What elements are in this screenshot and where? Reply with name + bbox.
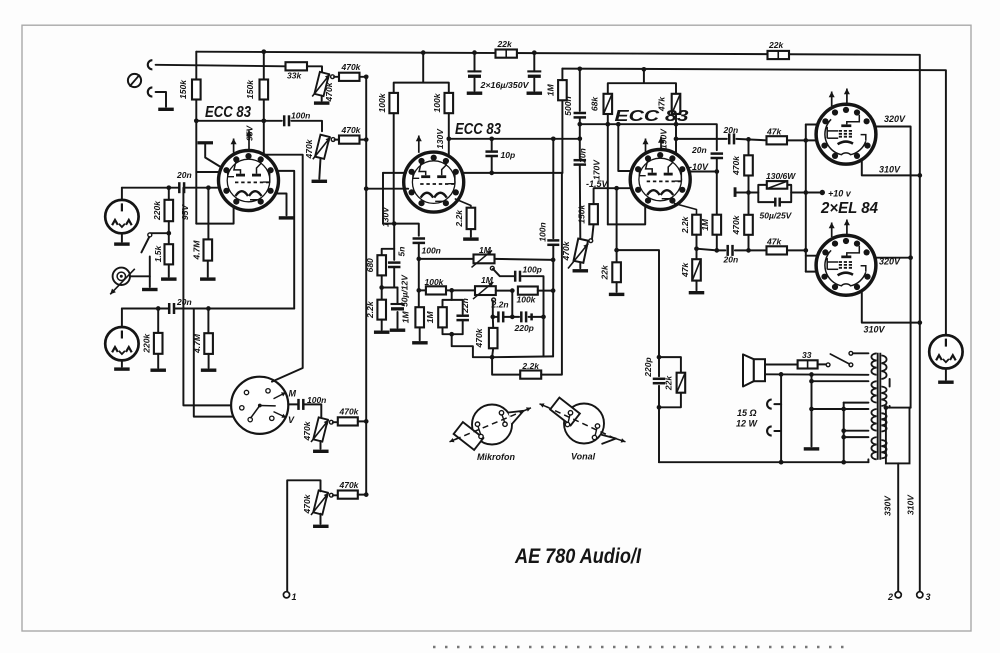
svg-text:Mikrofon: Mikrofon — [477, 452, 515, 462]
node 5n tap — [392, 221, 397, 226]
wire 2.2k R25 to 47k — [696, 235, 698, 260]
wire P7 wiper to 150k — [592, 224, 594, 239]
resistor 150k R2 — [260, 80, 269, 100]
node row A — [416, 257, 421, 262]
switch S2 lever — [830, 354, 849, 364]
svg-text:ECC 83: ECC 83 — [205, 104, 251, 121]
resistor 1M R16 — [558, 80, 567, 100]
wire speaker top to 33 — [765, 364, 798, 366]
terminal 3 — [917, 592, 923, 598]
wire bottom rail — [659, 461, 868, 463]
node bus bottom — [364, 492, 369, 497]
wire P5 wiper to 100p — [493, 269, 515, 276]
wire 470k R9 to bus — [358, 420, 366, 422]
svg-text:ECC 83: ECC 83 — [615, 108, 689, 125]
node divider top — [746, 137, 751, 142]
arrow M position — [274, 392, 287, 398]
wire 47k R31 to V5 grid — [787, 249, 806, 251]
wire hook to riser — [774, 403, 781, 405]
capacitor 100n C4 — [299, 399, 304, 410]
wire node to 470k R21 — [492, 317, 494, 328]
secondary winding R3 — [881, 413, 886, 431]
wire second rail to right DIN connector — [562, 69, 946, 336]
wire 100k R13 to V2 anode — [448, 113, 450, 155]
wire 100n C5 down to 1M — [418, 243, 420, 307]
capacitor 220p C12 — [653, 379, 666, 383]
capacitor 100n C1 — [284, 115, 289, 126]
svg-text:1: 1 — [292, 592, 297, 602]
wire 20n C2 to V1 grid — [185, 187, 220, 189]
node 10p bottom — [489, 171, 494, 176]
svg-text:2.2k: 2.2k — [680, 215, 690, 234]
svg-text:500n: 500n — [563, 96, 573, 115]
wire speaker bottom to winding W1 — [765, 373, 868, 376]
node anode wire end — [577, 136, 582, 141]
wire 95V cathode line — [195, 100, 197, 224]
primary winding W4 — [871, 437, 876, 459]
potentiometer 1M P5 — [474, 255, 495, 264]
svg-text:+10 v: +10 v — [828, 188, 852, 198]
wire W2 top — [812, 380, 869, 382]
svg-text:Vonal: Vonal — [571, 452, 596, 462]
wire P7 to ground — [579, 262, 581, 268]
wire V1 pin to ground — [276, 194, 286, 216]
svg-text:22k: 22k — [497, 39, 513, 49]
svg-text:2.2k: 2.2k — [454, 209, 464, 228]
svg-text:100k: 100k — [377, 92, 387, 112]
ground at cap A — [467, 92, 483, 95]
wire P4 wiper to 470k R10 — [333, 494, 338, 496]
svg-text:33k: 33k — [287, 70, 302, 80]
node bus top — [364, 74, 369, 79]
node caps riser — [510, 288, 515, 293]
terminal +10V — [820, 190, 825, 195]
capacitor 20n C2 — [179, 182, 184, 193]
node 22k top — [614, 248, 619, 253]
wire 500n down — [579, 118, 581, 158]
svg-text:310V: 310V — [864, 325, 886, 335]
wire anode line to 100n C7 — [552, 139, 554, 239]
node crossing W3 — [841, 407, 846, 412]
ground at 50u — [390, 329, 406, 332]
svg-text:470k: 470k — [474, 327, 484, 348]
ground at 4.7M R6 — [200, 277, 216, 280]
svg-text:320V: 320V — [884, 114, 906, 124]
node row B join — [551, 288, 556, 293]
svg-text:10p: 10p — [501, 150, 516, 160]
resistor 1M R27 — [713, 215, 722, 235]
potentiometer 470k P4 — [313, 490, 328, 514]
loudspeaker — [754, 359, 765, 381]
wire 20n C3 to V1 grid b — [174, 308, 294, 310]
ground at DIN3 — [938, 381, 954, 384]
DIN connector 1 — [105, 200, 138, 233]
node crossing — [803, 190, 808, 195]
svg-text:1M: 1M — [481, 275, 494, 285]
wire P6 to 100k R20 — [496, 290, 513, 292]
wire secondary link — [889, 379, 891, 408]
svg-text:22k: 22k — [664, 375, 674, 391]
wire cathode V3 to 20n C11 — [697, 249, 717, 251]
resistor 2.2k R25 — [692, 215, 701, 235]
capacitor 20n C8 — [574, 160, 587, 164]
wire pickup to riser — [130, 275, 150, 277]
wire node to 50u cap — [397, 288, 399, 304]
svg-text:150k: 150k — [245, 79, 255, 99]
wire DIN2 ground stub — [121, 360, 123, 366]
svg-text:100k: 100k — [517, 295, 537, 305]
wire grid to 4.7M R6 — [207, 188, 209, 240]
wire J1 to 33k — [156, 65, 286, 67]
capacitor 20n C10 — [729, 133, 734, 144]
node +10V line a — [746, 190, 751, 195]
wire 150k R2 to V1 anode pin — [263, 100, 265, 155]
resistor 2.2k R15 — [377, 300, 386, 320]
svg-text:470k: 470k — [561, 240, 571, 261]
heater arrow V4b — [846, 89, 848, 105]
resistor 4.7M R8 — [204, 333, 213, 354]
svg-text:22n: 22n — [460, 298, 470, 314]
triode ECC83 V2 — [404, 152, 464, 212]
wire node to switch contact — [150, 232, 169, 234]
svg-text:320V: 320V — [879, 257, 901, 267]
node cathode RC — [379, 285, 384, 290]
resistor 1M R19 — [438, 307, 447, 327]
resistor 470k R29 — [744, 155, 753, 175]
wire grid2 ground to V1 pin — [205, 144, 221, 167]
ground at P4 — [313, 525, 329, 528]
node 310V rail a — [917, 173, 922, 178]
svg-text:310V: 310V — [879, 165, 901, 175]
wire 100k R20 to 100n line — [538, 290, 553, 292]
wire channel2 to selector lower contact — [194, 309, 247, 417]
resistor 33k — [286, 62, 308, 70]
wire rail to cap A — [474, 53, 476, 72]
node filter cap B — [532, 50, 537, 55]
output transformer core — [877, 353, 879, 460]
wire 20n C9 to 1M R27 — [716, 159, 718, 215]
node switch tap — [166, 231, 171, 236]
capacitor 20n C3 — [169, 303, 174, 314]
heater arrow V2 — [418, 136, 420, 153]
wire cap A to ground — [474, 79, 476, 91]
svg-text:2×16µ/350V: 2×16µ/350V — [479, 80, 529, 90]
capacitor 20n C11 — [728, 245, 733, 256]
svg-text:220p: 220p — [643, 357, 653, 377]
node V4 grid — [803, 138, 808, 143]
phono symbol (circle with slash) — [128, 74, 141, 87]
svg-text:47k: 47k — [766, 236, 782, 246]
svg-text:33: 33 — [802, 350, 812, 360]
svg-text:20n: 20n — [723, 254, 739, 264]
svg-text:-10V: -10V — [689, 162, 709, 172]
svg-text:V: V — [288, 415, 295, 425]
wire V1 pin (155deg) — [196, 171, 220, 173]
wire W3 bottom — [844, 430, 869, 432]
resistor 100k R18 — [426, 286, 446, 294]
wire 2.2k R22 feedback riser — [541, 173, 562, 375]
svg-text:20n: 20n — [578, 148, 588, 164]
potentiometer 470k P1 — [314, 72, 329, 96]
svg-text:100k: 100k — [425, 277, 445, 287]
capacitor 22n — [456, 316, 469, 320]
wire J2 to ground — [156, 92, 166, 107]
ground bar at V1 grid2 — [198, 141, 214, 144]
wire V5 anode 320V — [875, 257, 911, 259]
wire 4.7M R6 to ground — [207, 261, 209, 277]
resistor 47k R28 — [767, 136, 788, 144]
wire to V5 pin upper — [806, 255, 817, 257]
wire to 470k R29 — [748, 139, 750, 155]
resistor 100k R13 — [445, 93, 454, 113]
secondary output box — [886, 408, 910, 464]
wire 100n C4 to pot P3 — [304, 404, 321, 418]
wire cap B to ground — [533, 79, 535, 91]
switch lever b — [260, 405, 275, 407]
svg-text:1M: 1M — [425, 310, 435, 323]
resistor 47k R26 — [692, 259, 701, 280]
wire 33k to pot P1 — [307, 66, 322, 72]
node bus low — [364, 419, 369, 424]
switch lever — [141, 237, 149, 252]
resistor 2.2k R17 — [467, 208, 476, 229]
svg-text:220k: 220k — [141, 333, 151, 354]
resistor 22k R33 — [677, 373, 686, 393]
ground at 4.7M R8 — [201, 369, 217, 372]
svg-text:47k: 47k — [766, 126, 782, 136]
wire to 22n — [452, 300, 463, 314]
resistor 1M R14 — [415, 307, 424, 327]
wire to V3 pin155 — [618, 124, 632, 171]
capacitor 100n C5 — [413, 239, 426, 243]
svg-text:100n: 100n — [422, 245, 441, 255]
primary winding W1 — [871, 353, 876, 375]
wire 1.5k to ground — [168, 264, 170, 276]
wire 470k R21 bottom — [492, 348, 493, 357]
wire V3 pin300 to 2.2k R25 — [675, 204, 697, 215]
node collector mid — [541, 315, 546, 320]
svg-text:470k: 470k — [324, 81, 334, 102]
wire 470k R3 to bus — [360, 76, 367, 78]
svg-text:680: 680 — [365, 258, 375, 272]
wire W2 bottom — [844, 402, 869, 404]
ground at DIN2 — [114, 367, 129, 370]
wire node to 50u — [382, 287, 398, 289]
wire to 2.2k R22 — [492, 357, 520, 374]
svg-text:100n: 100n — [291, 110, 310, 120]
wire to 20n C11 — [717, 249, 726, 251]
triode ECC83 V1 — [219, 151, 279, 211]
wire V2 pin300 to 2.2k R17 — [455, 199, 471, 208]
wire P3 to ground — [320, 441, 322, 449]
wire 100k R18 to pot P6 — [446, 289, 475, 291]
wire bus to V2 grid pin — [366, 188, 408, 190]
ground at J2 — [158, 108, 174, 111]
svg-text:1M: 1M — [479, 245, 492, 255]
wire row B to 100k R18 — [419, 289, 426, 291]
potentiometer 470k P2 — [315, 135, 330, 159]
wire rail to 150k R1 — [195, 52, 197, 80]
heater arrow V1b — [248, 131, 250, 152]
node rail to 100k pair — [421, 50, 426, 55]
svg-text:470k: 470k — [341, 62, 362, 72]
svg-text:100k: 100k — [432, 92, 442, 112]
wire rail to 150k R2 — [263, 52, 265, 80]
wire P1 wiper to 470k R3 — [334, 76, 339, 78]
pentode EL84 V4 — [816, 104, 876, 164]
svg-text:170V: 170V — [592, 159, 602, 180]
wire W4 top — [844, 436, 869, 438]
ground at 1.5k — [161, 277, 177, 280]
node cathode V3 — [694, 246, 699, 251]
svg-text:470k: 470k — [731, 214, 741, 235]
svg-text:470k: 470k — [341, 125, 362, 135]
svg-text:470k: 470k — [339, 407, 360, 417]
wire rail2 to 68k/47k — [608, 69, 676, 94]
node W2 riser — [809, 372, 814, 377]
wire box to 320V line — [910, 407, 911, 409]
svg-text:47k: 47k — [680, 262, 690, 278]
resistor 47k R24 — [672, 94, 681, 114]
terminal bar — [734, 187, 737, 197]
node grid EL84 V5 — [714, 248, 719, 253]
wire -1,5V to 22k R32 — [616, 188, 618, 262]
node 470k bottom — [490, 355, 495, 360]
wire hook2 to riser — [774, 430, 781, 432]
wire rail2 to 500n — [579, 69, 581, 111]
capacitor 20n C9 — [711, 154, 724, 158]
wire DIN1 stub — [121, 188, 123, 200]
wire P3 wiper to 470k R9 — [333, 421, 338, 423]
wire speaker return riser — [780, 374, 782, 462]
wire riser caps to row B — [511, 291, 513, 317]
resistor 220k R5 — [165, 200, 174, 221]
node row B — [416, 288, 421, 293]
node anode/100n — [261, 118, 266, 123]
resistor 130/6W with bypass 50u/25V — [758, 185, 791, 202]
wire 20n C10 to 47k R28 — [736, 139, 766, 140]
svg-text:100n: 100n — [538, 222, 548, 241]
resistor 150k R1 — [192, 80, 201, 100]
capacitor 2.2n — [498, 311, 503, 322]
primary winding W3 — [871, 409, 876, 431]
svg-text:15 Ω: 15 Ω — [737, 408, 757, 418]
capacitor electrolytic 2x16u B — [527, 70, 541, 72]
ground at 1M R14 — [412, 341, 428, 344]
switch contact circle — [148, 233, 152, 237]
wire to 1M R19 — [443, 290, 452, 307]
node 150k R1 / coupling — [194, 118, 199, 123]
ground at 2.2k R15 — [374, 331, 390, 334]
node between caps — [510, 315, 515, 320]
node 1M R19 tap — [449, 288, 454, 293]
node 220k R7 — [156, 306, 161, 311]
ground at 22k R32 — [609, 293, 625, 296]
wire 68k down (170V line) — [607, 114, 609, 224]
svg-text:1M: 1M — [700, 218, 710, 231]
resistor 100k R20 — [518, 287, 538, 295]
wire anode to 10p — [491, 139, 493, 150]
capacitor 10p — [485, 152, 498, 156]
wire node to 100n C1 — [196, 120, 281, 122]
wire V4 anode 320V down — [875, 127, 911, 408]
node V2 anode — [446, 136, 451, 141]
node V5 grid — [803, 248, 808, 253]
wire DIN1 to 20n C2 — [122, 187, 179, 189]
pickup connector (circle with arrow) — [113, 268, 130, 285]
wire 1M R14 to ground — [419, 327, 421, 340]
svg-text:50µ/12V: 50µ/12V — [400, 274, 410, 307]
wire row A right — [495, 259, 554, 260]
svg-text:20n: 20n — [176, 170, 192, 180]
secondary winding R2 — [881, 387, 886, 407]
resistor 470k R4 — [339, 136, 360, 144]
heater arrow V4a — [831, 92, 833, 107]
wire to V4 pin upper — [806, 124, 817, 126]
wire P4 to ground — [320, 514, 322, 524]
node secondary to box — [884, 405, 889, 410]
resistor 22k R34 (rail right) — [768, 51, 790, 59]
capacitor 220p — [521, 311, 526, 322]
wire grid bus EL84 — [805, 125, 807, 272]
node 220k R5 — [166, 185, 171, 190]
resistor 220k R7 — [154, 333, 163, 354]
resistor 680 — [377, 255, 386, 275]
wire V1 pin to channel2 line — [277, 171, 294, 309]
wire 100n C1 to pot P2 — [291, 121, 322, 131]
svg-text:470k: 470k — [302, 493, 312, 514]
svg-text:220p: 220p — [514, 323, 534, 333]
svg-text:22k: 22k — [599, 264, 609, 280]
secondary winding R4 — [881, 440, 886, 458]
line-input pictogram — [564, 404, 604, 444]
wire P2 wiper to 470k R4 — [335, 139, 339, 141]
wire 680 top — [382, 249, 395, 255]
wire 130V branch — [382, 173, 384, 224]
wire 1M/22n bottom — [443, 321, 463, 335]
resistor 150k R23 — [589, 204, 598, 224]
wire feedback to bottom rail — [658, 407, 660, 462]
svg-text:50µ/25V: 50µ/25V — [760, 211, 793, 221]
wire 100k R12 down (130V line) — [393, 113, 395, 223]
resistor 4.7M R6 — [204, 239, 213, 260]
ground at transformer — [804, 447, 820, 450]
capacitor 100p — [515, 271, 520, 282]
svg-text:ECC 83: ECC 83 — [455, 121, 501, 138]
wire 10p down — [491, 157, 493, 173]
node bottom tap — [449, 332, 454, 337]
resistor 22k R32 — [612, 262, 621, 282]
svg-text:95V: 95V — [180, 204, 190, 220]
ground at P7 — [573, 269, 589, 272]
wire 220p to collector — [529, 316, 544, 318]
wire channel1 to selector upper contact — [183, 188, 242, 406]
wire W4 bottom to rail — [867, 459, 869, 462]
wire rail to 100k pair — [394, 53, 449, 93]
svg-text:1M: 1M — [546, 83, 556, 96]
svg-text:330V: 330V — [883, 495, 893, 516]
wire 100p to collector — [520, 276, 543, 356]
wire 470k R30 down — [748, 235, 750, 251]
node 320V join — [908, 255, 913, 260]
scan artifact dotted strip at bottom — [433, 646, 848, 648]
terminal hook 12W — [767, 426, 772, 435]
ground at DIN1 — [114, 242, 129, 245]
wire tap riser — [843, 403, 845, 463]
svg-text:150k: 150k — [577, 203, 587, 223]
wire ground riser — [811, 375, 813, 447]
svg-text:130/6W: 130/6W — [766, 171, 796, 181]
